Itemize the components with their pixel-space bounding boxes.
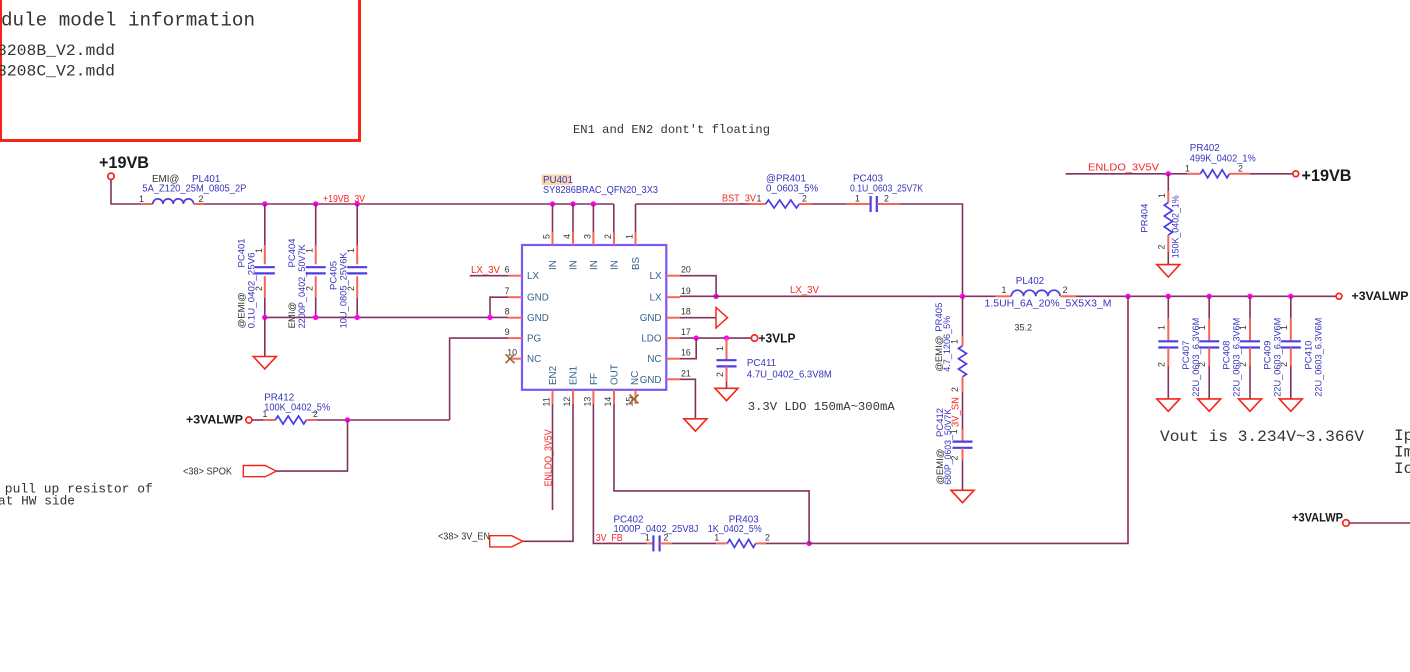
junction LX rail at PR405	[960, 294, 965, 299]
svg-text:2: 2	[254, 286, 264, 291]
wire pin 17 LDO to +3VLP	[680, 337, 751, 339]
junction top rail at PC401	[262, 201, 267, 206]
svg-text:GND: GND	[527, 293, 549, 304]
junction rail at PC407	[1166, 294, 1171, 299]
junction ENLDO at PR404	[1166, 171, 1171, 176]
resistor PR404 150K_0402_1%	[1140, 174, 1182, 265]
wire +19VB_3V rail	[204, 203, 614, 205]
svg-text:13: 13	[582, 397, 592, 407]
pin 20 LX (right)	[650, 265, 691, 283]
svg-text:11: 11	[542, 397, 552, 406]
svg-text:1: 1	[949, 429, 959, 434]
svg-text:1: 1	[855, 194, 860, 204]
svg-text:1: 1	[1157, 193, 1167, 198]
svg-text:19: 19	[681, 286, 691, 296]
junction top rail at PC404	[313, 201, 318, 206]
ground under PC409	[1239, 399, 1262, 411]
svg-text:2: 2	[802, 194, 807, 204]
svg-text:at HW side: at HW side	[0, 494, 75, 509]
svg-text:NC: NC	[647, 354, 661, 365]
svg-text:+19VB: +19VB	[1302, 166, 1352, 185]
note: 3.3V LDO 150mA~300mA	[748, 400, 896, 414]
svg-text:680P_0603_50V7K: 680P_0603_50V7K	[943, 408, 954, 485]
wire gnd stem	[264, 317, 266, 356]
svg-text:3: 3	[582, 234, 592, 239]
svg-text:100K_0402_5%: 100K_0402_5%	[264, 402, 330, 413]
inductor PL401 5A_Z120_25M_0805_2P	[139, 174, 247, 204]
svg-text:PR404: PR404	[1140, 204, 1151, 233]
junction rail at PC408	[1207, 294, 1212, 299]
junction top rail at PC405	[355, 201, 360, 206]
svg-text:2: 2	[664, 533, 669, 543]
net stub LX_3V at pin 6	[470, 265, 508, 276]
pin 12 EN1 (bottom)	[562, 366, 580, 407]
svg-text:ENLDO_3V5V: ENLDO_3V5V	[543, 429, 554, 486]
svg-text:1: 1	[1156, 325, 1166, 330]
junction top rail at IC pin 4	[570, 201, 575, 206]
capacitor PC401 0.1U_0402_25V6	[236, 204, 274, 328]
svg-text:<38> 3V_EN: <38> 3V_EN	[438, 532, 490, 543]
junction rail at feedback drop	[1125, 294, 1130, 299]
pin 10 NC (left)	[506, 348, 542, 366]
wire pin 12 EN1 down to 3V_EN	[523, 404, 573, 541]
svg-text:2: 2	[765, 533, 770, 543]
svg-text:IN: IN	[569, 260, 580, 270]
capacitor PC411 4.7U_0402_6.3V8M	[715, 338, 832, 388]
wire pin 21 GND down	[680, 379, 695, 419]
pin 7 GND (left)	[505, 286, 549, 304]
pin name NC (pin 15 inside)	[630, 371, 641, 385]
svg-text:9: 9	[505, 327, 510, 337]
svg-text:<38> SPOK: <38> SPOK	[183, 467, 232, 478]
svg-text:35.2: 35.2	[1015, 323, 1033, 333]
power port +19VB (left)	[99, 153, 149, 180]
resistor PR405 4.7_1206_5%	[934, 296, 967, 392]
svg-text:2: 2	[949, 456, 959, 461]
pin 21 GND (right)	[640, 368, 691, 386]
svg-text:2: 2	[313, 409, 318, 419]
svg-text:1: 1	[1197, 325, 1207, 330]
svg-text:BST_3V: BST_3V	[722, 194, 756, 205]
svg-text:+3VLP: +3VLP	[759, 330, 796, 345]
svg-text:1: 1	[757, 194, 762, 204]
svg-text:LX: LX	[527, 271, 539, 282]
ground under pin 21	[684, 419, 707, 431]
svg-text:1: 1	[625, 234, 635, 239]
svg-text:FF: FF	[589, 373, 600, 385]
svg-text:GND: GND	[527, 313, 549, 324]
wire PR403 to feedback node	[766, 542, 809, 544]
svg-text:+3VALWP: +3VALWP	[1292, 513, 1343, 525]
svg-text:1: 1	[715, 346, 725, 351]
capacitor PC410 22U_0603_6.3V6M	[1279, 296, 1325, 399]
pin 15 NC (bottom)	[625, 390, 639, 407]
wire pin 7 GND to gnd rail	[490, 297, 508, 317]
ground symbol under input caps	[253, 357, 276, 369]
svg-text:1: 1	[139, 194, 144, 204]
junction gnd rail at PC405	[355, 315, 360, 320]
svg-text:3.3V LDO 150mA~300mA: 3.3V LDO 150mA~300mA	[748, 400, 896, 414]
wire +19VB to PL401	[111, 180, 142, 204]
ground under PC407	[1157, 399, 1180, 411]
svg-text:IN: IN	[589, 260, 600, 270]
pin 14 OUT (bottom)	[603, 364, 621, 406]
junction rail at PC410	[1288, 294, 1293, 299]
wire PR401 to PC403	[812, 203, 846, 205]
svg-text:GND: GND	[640, 375, 662, 386]
svg-text:1: 1	[254, 248, 264, 253]
svg-text:LX_3V: LX_3V	[790, 285, 819, 296]
svg-text:14: 14	[603, 397, 613, 407]
pin 8 GND (left)	[505, 307, 549, 325]
wire ENLDO_3V5V	[1066, 173, 1171, 175]
svg-text:LDO: LDO	[641, 334, 662, 345]
capacitor PC407 22U_0603_6.3V6M	[1156, 296, 1202, 399]
svg-text:IN: IN	[610, 260, 621, 270]
svg-text:18: 18	[681, 307, 691, 317]
svg-text:17: 17	[681, 327, 691, 337]
wire PC403 down to LX_3V rail	[900, 204, 963, 296]
svg-text:2: 2	[950, 387, 960, 392]
svg-text:NC: NC	[630, 371, 641, 385]
svg-text:BS: BS	[631, 256, 642, 270]
svg-text:0_0603_5%: 0_0603_5%	[766, 183, 819, 194]
svg-text:2: 2	[1279, 362, 1289, 367]
svg-text:PG: PG	[527, 334, 541, 345]
wire +3VALWP rail	[1076, 295, 1336, 297]
svg-text:1: 1	[346, 248, 356, 253]
svg-text:4.7U_0402_6.3V8M: 4.7U_0402_6.3V8M	[747, 370, 832, 381]
junction gnd rail at PC404	[313, 315, 318, 320]
net label BST_3V1	[722, 194, 762, 205]
svg-text:EN2: EN2	[548, 366, 559, 385]
svg-text:150K_0402_1%: 150K_0402_1%	[1170, 195, 1181, 259]
note: pull up resistor (clipped)	[0, 482, 153, 509]
svg-text:2: 2	[1238, 362, 1248, 367]
capacitor PC402 1000P_0402_25V8J	[614, 514, 699, 551]
svg-text:1: 1	[1279, 325, 1289, 330]
resistor PR401 0_0603_5%	[750, 174, 819, 209]
off-page connector <38> 3V_EN	[438, 532, 523, 547]
net label 3V_FB	[596, 533, 623, 544]
capacitor PC404 2200P_0402_50V7K	[287, 204, 326, 328]
wire pin 20 LX join pin 19	[680, 276, 716, 297]
svg-text:EN1: EN1	[569, 366, 580, 385]
resistor PR402 499K_0402_1%	[1171, 143, 1293, 178]
svg-text:2: 2	[346, 286, 356, 291]
svg-text:+19VB: +19VB	[99, 153, 149, 172]
power port +3VALWP (left)	[186, 412, 252, 426]
svg-text:LX: LX	[650, 293, 662, 304]
svg-text:LX: LX	[650, 271, 662, 282]
wire BS pin1 to BST_3V1	[636, 203, 751, 205]
svg-text:1: 1	[263, 409, 268, 419]
svg-text:dule model information: dule model information	[1, 10, 255, 32]
svg-text:Imax: Imax	[1394, 444, 1410, 462]
svg-text:2200P_0402_50V7K: 2200P_0402_50V7K	[297, 244, 308, 329]
svg-text:Vout is 3.234V~3.366V: Vout is 3.234V~3.366V	[1160, 428, 1364, 446]
svg-text:1: 1	[1002, 285, 1007, 295]
svg-text:1: 1	[714, 533, 719, 543]
svg-text:20: 20	[681, 265, 691, 275]
svg-text:2: 2	[1157, 245, 1167, 250]
inductor PL402 1.5UH_6A_20%_5X5X3_M	[985, 276, 1112, 309]
op-amp U1 : regulator PU401 SY8286BRAC_QFN20_3X3 body	[522, 175, 666, 390]
pin 1 BS (top)	[625, 204, 643, 270]
junction PR412/SPOK node	[345, 417, 350, 422]
svg-text:4: 4	[562, 234, 572, 239]
junction LDO at pin16 join	[694, 335, 699, 340]
svg-text:8208C_V2.mdd: 8208C_V2.mdd	[0, 62, 115, 80]
wire from +3VALWP to edge	[1349, 522, 1410, 524]
net label LX_3V (rail)	[790, 285, 819, 296]
svg-text:ENLDO_3V5V: ENLDO_3V5V	[1088, 162, 1160, 173]
capacitor PC408 22U_0603_6.3V6M	[1197, 296, 1243, 399]
svg-text:6: 6	[505, 265, 510, 275]
note: Vout is 3.234V~3.366V	[1160, 428, 1364, 446]
pin 17 LDO (right)	[641, 327, 691, 345]
svg-text:1: 1	[305, 248, 315, 253]
ground under PC408	[1198, 399, 1221, 411]
svg-text:8: 8	[505, 307, 510, 317]
ground under PC410	[1279, 399, 1302, 411]
junction top rail at IC pin 5	[550, 201, 555, 206]
wire PR412 to PG node	[317, 419, 450, 421]
pin 13 FF (bottom)	[582, 373, 600, 406]
svg-text:5: 5	[542, 234, 552, 239]
svg-text:SY8286BRAC_QFN20_3X3: SY8286BRAC_QFN20_3X3	[543, 185, 659, 196]
svg-text:22U_0603_6.3V6M: 22U_0603_6.3V6M	[1313, 318, 1324, 397]
junction gnd rail at PC401	[262, 315, 267, 320]
resistor PR403 1K_0402_5%	[708, 514, 770, 547]
svg-text:1: 1	[1185, 163, 1190, 173]
resistor PR412 100K_0402_5%	[252, 393, 330, 424]
svg-text:499K_0402_1%: 499K_0402_1%	[1190, 154, 1256, 165]
pin 2 IN (top)	[603, 204, 621, 270]
svg-text:12: 12	[562, 397, 572, 407]
pin 5 IN (top)	[542, 204, 560, 270]
wire gnd rail under caps	[265, 316, 508, 318]
svg-text:16: 16	[681, 348, 691, 358]
svg-text:2: 2	[1238, 163, 1243, 173]
svg-text:GND: GND	[640, 313, 662, 324]
net label ENLDO_3V5V	[1088, 162, 1160, 173]
svg-text:2: 2	[1156, 362, 1166, 367]
svg-text:7: 7	[505, 286, 510, 296]
svg-text:1000P_0402_25V8J: 1000P_0402_25V8J	[614, 524, 699, 535]
power port +3VALWP (rail right)	[1336, 289, 1408, 303]
capacitor PC409 22U_0603_6.3V6M	[1238, 296, 1284, 399]
wire feedback to +3VALWP rail	[809, 296, 1128, 543]
svg-text:2: 2	[1197, 362, 1207, 367]
note: EN1 and EN2 dont't floating	[573, 123, 770, 137]
svg-text:PC411: PC411	[747, 358, 776, 369]
svg-text:NC: NC	[527, 354, 541, 365]
ground under PC411	[715, 388, 738, 400]
ground under PR404	[1157, 265, 1180, 277]
gnd plane arrow at pin 18	[716, 308, 728, 329]
svg-text:PR402: PR402	[1190, 143, 1220, 154]
wire pin 11 EN2 stub down	[552, 404, 554, 510]
pin 6 LX (left)	[505, 265, 540, 283]
pin 18 GND (right)	[640, 307, 691, 325]
wire pin 18 GND to plane arrow	[680, 317, 716, 319]
wire pin 16 NC join LDO	[680, 338, 696, 359]
pin 4 IN (top)	[562, 204, 580, 270]
svg-text:5A_Z120_25M_0805_2P: 5A_Z120_25M_0805_2P	[142, 184, 246, 195]
pin 19 LX (right)	[650, 286, 691, 304]
net label ENLDO_3V5V (vertical)	[543, 429, 554, 486]
net label 3V_SN	[951, 397, 962, 427]
junction LX rail at pin20 drop	[713, 294, 718, 299]
svg-text:2: 2	[884, 194, 889, 204]
svg-text:1.5UH_6A_20%_5X5X3_M: 1.5UH_6A_20%_5X5X3_M	[985, 298, 1112, 309]
junction rail at PC409	[1247, 294, 1252, 299]
junction gnd rail at pin7 drop	[487, 315, 492, 320]
note 35.2	[1015, 323, 1033, 333]
svg-text:1: 1	[950, 339, 960, 344]
svg-text:2: 2	[715, 372, 725, 377]
wire pin 14 OUT to feedback node	[614, 404, 809, 543]
svg-text:1: 1	[645, 533, 650, 543]
svg-text:PL402: PL402	[1016, 276, 1044, 287]
net label +19VB_3V	[323, 194, 365, 205]
off-page connector <38> SPOK	[183, 466, 276, 478]
svg-text:2: 2	[199, 194, 204, 204]
svg-text:+3VALWP: +3VALWP	[1352, 289, 1409, 303]
svg-text:IN: IN	[548, 260, 559, 270]
power port +3VALWP (bottom right)	[1292, 513, 1349, 527]
capacitor PC405 10U_0805_25V6K	[329, 204, 368, 328]
note: Ipe/Ima/Ioc (clipped)	[1394, 427, 1410, 478]
svg-text:Ipea: Ipea	[1394, 427, 1410, 445]
wire pin 13 FF down	[593, 404, 646, 543]
svg-text:8208B_V2.mdd: 8208B_V2.mdd	[0, 42, 115, 60]
note box: module model information	[0, 0, 360, 141]
pin 16 NC (right)	[647, 348, 691, 366]
ground under PC412	[951, 490, 974, 502]
svg-text:2: 2	[305, 286, 315, 291]
power port +19VB (right)	[1293, 166, 1352, 185]
svg-text:EN1 and EN2 dont't floating: EN1 and EN2 dont't floating	[573, 123, 770, 137]
svg-text:Iocp: Iocp	[1394, 460, 1410, 478]
svg-text:LX_3V: LX_3V	[471, 265, 500, 276]
svg-text:2: 2	[1063, 285, 1068, 295]
pin 9 PG (left)	[505, 327, 542, 345]
capacitor PC403 0.1U_0603_25V7K	[846, 174, 923, 213]
wire LX_3V rail	[680, 295, 996, 297]
junction LDO at PC411	[724, 335, 729, 340]
svg-text:OUT: OUT	[610, 364, 621, 385]
capacitor PC412 680P_0603_50V7K	[935, 392, 973, 490]
pin 3 IN (top)	[582, 204, 600, 270]
svg-text:1: 1	[1238, 325, 1248, 330]
power port +3VLP	[751, 330, 795, 345]
junction feedback node	[806, 541, 811, 546]
svg-text:2: 2	[603, 234, 613, 239]
svg-text:21: 21	[681, 368, 691, 378]
junction top rail at IC pin 3	[591, 201, 596, 206]
svg-text:+3VALWP: +3VALWP	[186, 412, 243, 426]
wire PC402 to PR403	[672, 542, 716, 544]
wire SPOK to node	[276, 420, 347, 471]
pin 11 EN2 (bottom)	[542, 366, 560, 407]
wire pin 9 PG to PR412 node	[450, 338, 508, 420]
